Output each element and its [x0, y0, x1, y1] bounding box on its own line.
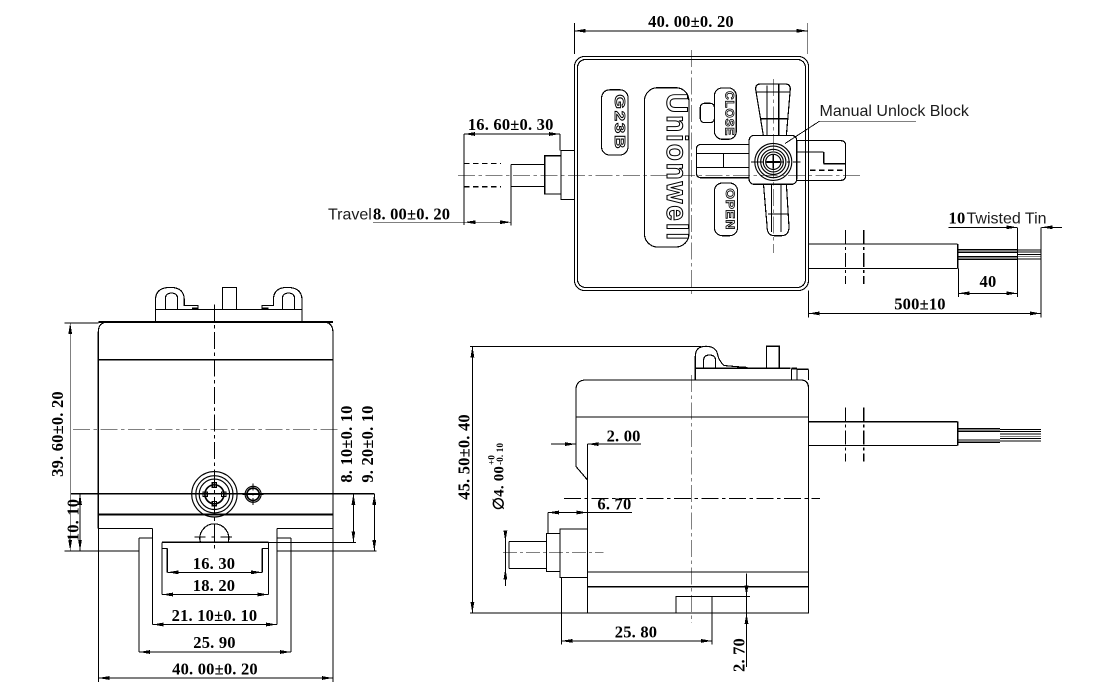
svg-text:∅4. 00: ∅4. 00 — [492, 466, 508, 510]
svg-text:OPEN: OPEN — [723, 188, 735, 230]
svg-text:45. 50±0. 40: 45. 50±0. 40 — [455, 414, 474, 500]
svg-text:9. 20±0. 10: 9. 20±0. 10 — [358, 405, 377, 482]
svg-text:CLOSE: CLOSE — [722, 91, 734, 136]
svg-text:40: 40 — [980, 272, 997, 291]
svg-text:16. 60±0. 30: 16. 60±0. 30 — [468, 115, 554, 134]
svg-text:Unionwell: Unionwell — [660, 93, 693, 242]
svg-text:18. 20: 18. 20 — [193, 576, 235, 595]
svg-text:10. 10: 10. 10 — [64, 499, 83, 541]
svg-text:500±10: 500±10 — [894, 295, 946, 314]
svg-text:8. 10±0. 10: 8. 10±0. 10 — [337, 405, 356, 482]
svg-text:21. 10±0. 10: 21. 10±0. 10 — [172, 606, 258, 625]
svg-text:40. 00±0. 20: 40. 00±0. 20 — [648, 12, 734, 31]
svg-text:Twisted Tin: Twisted Tin — [967, 211, 1047, 228]
svg-text:Manual Unlock Block: Manual Unlock Block — [820, 103, 970, 120]
svg-text:10: 10 — [949, 209, 966, 228]
svg-text:39. 60±0. 20: 39. 60±0. 20 — [48, 391, 67, 477]
svg-text:2. 70: 2. 70 — [730, 638, 749, 672]
svg-text:25. 80: 25. 80 — [615, 623, 657, 642]
svg-text:25. 90: 25. 90 — [193, 633, 235, 652]
svg-text:16. 30: 16. 30 — [193, 554, 235, 573]
svg-text:8. 00±0. 20: 8. 00±0. 20 — [373, 204, 450, 223]
svg-text:G23B: G23B — [611, 94, 628, 150]
svg-text:6. 70: 6. 70 — [597, 495, 631, 514]
svg-text:-0. 10: -0. 10 — [495, 443, 505, 465]
svg-text:Travel: Travel — [328, 206, 372, 223]
svg-text:40. 00±0. 20: 40. 00±0. 20 — [172, 660, 258, 679]
svg-text:2. 00: 2. 00 — [607, 427, 641, 446]
